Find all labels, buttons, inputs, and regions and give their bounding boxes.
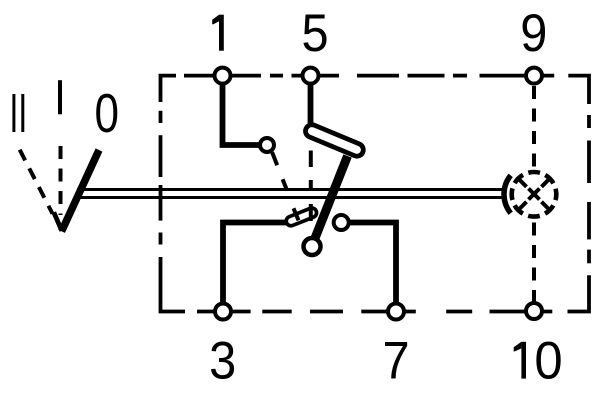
svg-text:0: 0 <box>95 82 120 144</box>
switch housing border (dash-dot box), top side <box>184 74 554 78</box>
lamp center cross <box>529 189 540 200</box>
moving bridge arm (diagonal) <box>314 156 348 242</box>
pin label 9 <box>520 3 547 62</box>
lower contact bracket from terminal 3 <box>223 223 286 304</box>
fixed contact circle (terminal 7 branch) <box>334 215 349 230</box>
terminal 5 <box>303 68 319 84</box>
terminal 3 <box>215 304 231 320</box>
pin label 1 <box>212 15 224 51</box>
mechanical link (double line) <box>75 190 503 198</box>
pin label 3 <box>209 331 236 390</box>
border top-right corner <box>568 76 589 104</box>
lower contact bracket from terminal 7 <box>350 223 397 304</box>
wire from terminal 5 down to bridge capsule <box>308 83 314 128</box>
pin label 10 <box>514 342 526 379</box>
dashed line lamp to terminal 10 <box>532 219 536 303</box>
dashed line terminal 9 to lamp <box>532 86 536 170</box>
border top-left corner <box>161 76 177 102</box>
position label I <box>58 80 62 114</box>
lamp mechanical coupling arc <box>504 175 511 213</box>
svg-text:0: 0 <box>534 332 562 391</box>
dashed actuation line through lower capsule <box>309 204 313 221</box>
actuator arrow wing <box>54 212 62 231</box>
tick across lower capsule <box>294 208 299 220</box>
position I dashed direction line <box>59 146 63 215</box>
bridge pivot circle <box>304 238 321 255</box>
svg-text:7: 7 <box>383 331 410 390</box>
pin label 7 <box>383 331 410 390</box>
svg-text:9: 9 <box>520 3 547 62</box>
position label II <box>14 94 23 132</box>
wire from terminal 1 down to fixed contact <box>223 83 261 145</box>
illumination lamp L (dashed circle) <box>512 172 557 217</box>
svg-text:3: 3 <box>209 331 236 390</box>
border right side dashes <box>587 115 591 263</box>
position label 0 <box>95 82 120 144</box>
dashed actuation line below capsule 5 <box>309 151 313 189</box>
terminal 9 <box>526 68 542 84</box>
terminal 1 <box>215 68 231 84</box>
svg-text:5: 5 <box>301 3 328 62</box>
terminal 10 <box>526 303 542 319</box>
border bottom-right corner <box>568 275 590 311</box>
upper contact bridge capsule (terminal 5) <box>304 123 366 158</box>
border bottom-left corner <box>161 257 186 312</box>
lamp X rays <box>518 178 550 210</box>
border bottom side dashes <box>197 310 552 314</box>
terminal 7 <box>388 304 404 320</box>
actuator lever (position 0) <box>62 150 99 231</box>
position II dashed direction line <box>20 150 53 214</box>
border left side dashes <box>159 111 163 245</box>
lower bridge capsule <box>285 207 318 228</box>
pin label 5 <box>301 3 328 62</box>
dashed travel path from contact 1 to link <box>272 152 287 190</box>
fixed contact circle (terminal 1 branch) <box>260 138 274 152</box>
